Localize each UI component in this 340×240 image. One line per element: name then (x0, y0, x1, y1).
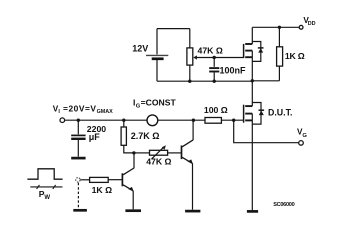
svg-text:μF: μF (89, 132, 101, 142)
svg-text:100 Ω: 100 Ω (204, 105, 228, 115)
svg-text:SC06000: SC06000 (273, 202, 294, 208)
svg-text:W: W (44, 195, 50, 201)
svg-text:DD: DD (308, 21, 316, 27)
svg-text:2.7K Ω: 2.7K Ω (131, 131, 160, 141)
svg-text:D.U.T.: D.U.T. (268, 108, 292, 118)
svg-text:100nF: 100nF (220, 66, 247, 76)
svg-text:47K Ω: 47K Ω (198, 46, 223, 56)
svg-text:1K Ω: 1K Ω (92, 185, 113, 195)
svg-text:=20V=V: =20V=V (63, 103, 97, 113)
svg-text:=CONST: =CONST (141, 97, 177, 107)
svg-text:G: G (302, 133, 307, 139)
svg-text:GMAX: GMAX (97, 109, 114, 115)
svg-text:12V: 12V (132, 43, 148, 53)
svg-text:1K Ω: 1K Ω (285, 51, 305, 61)
svg-text:47K Ω: 47K Ω (146, 156, 171, 166)
